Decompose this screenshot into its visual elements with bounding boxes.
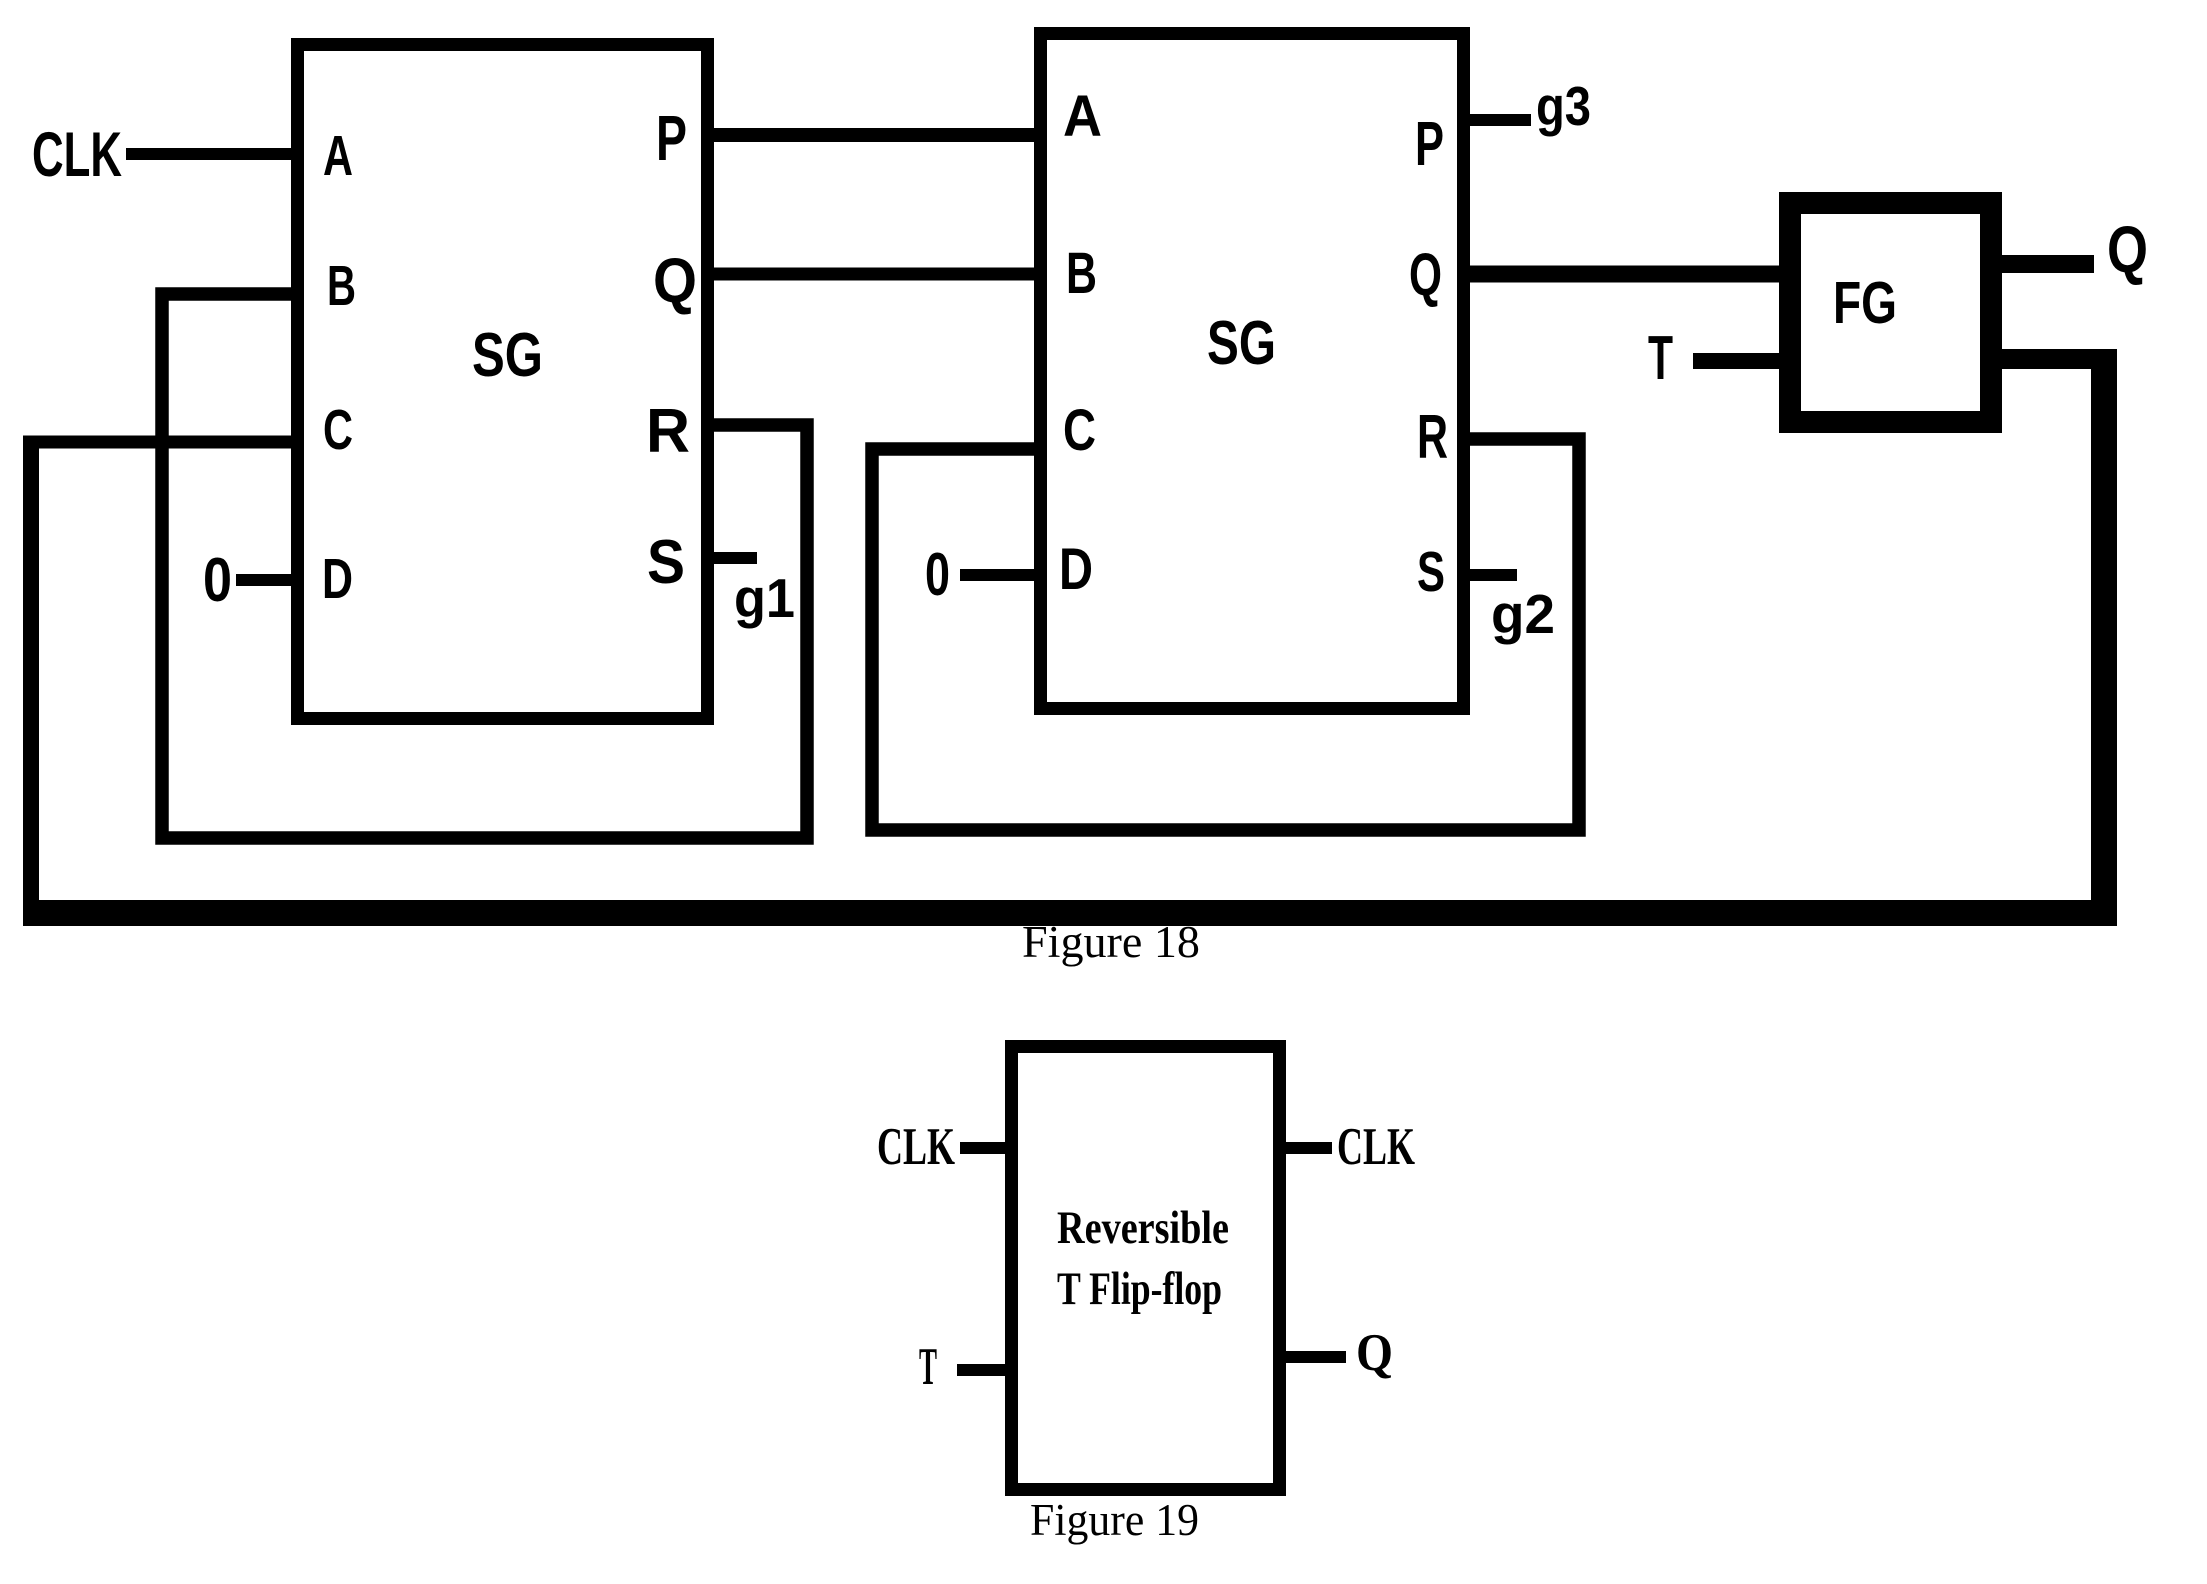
svg-text:A: A	[1063, 84, 1102, 149]
svg-text:Figure 18: Figure 18	[1022, 917, 1200, 967]
svg-text:0: 0	[925, 541, 950, 608]
wire Q output (Figure 19)	[1280, 1351, 1346, 1363]
reversible T flip-flop box (Figure 19)	[1012, 1047, 1280, 1490]
svg-text:B: B	[1066, 241, 1097, 306]
svg-text:D: D	[1059, 537, 1093, 602]
wire FG Q output	[2000, 255, 2094, 273]
svg-text:g3: g3	[1536, 75, 1591, 137]
wire CLK to A (U1)	[126, 148, 298, 160]
svg-text:g1: g1	[734, 567, 795, 629]
svg-text:T: T	[919, 1338, 937, 1396]
svg-text:C: C	[1063, 398, 1096, 463]
gate FG box	[1790, 203, 1991, 422]
svg-text:C: C	[323, 398, 353, 462]
wire Q (U2) to FG input	[1463, 266, 1791, 283]
wire 0 to D (U2)	[960, 569, 1041, 581]
wire R (U1) feedback loop to B (U1)	[162, 294, 807, 838]
wire S (U1) stub	[707, 552, 757, 564]
wire Q (U1) to B (U2)	[707, 268, 1041, 281]
svg-text:FG: FG	[1833, 270, 1897, 336]
svg-text:SG: SG	[472, 321, 543, 390]
svg-text:T: T	[1648, 324, 1673, 393]
wire CLK left (Figure 19)	[960, 1142, 1012, 1154]
svg-text:CLK: CLK	[32, 120, 122, 190]
wire into C (U1)	[23, 436, 298, 449]
wire T to FG	[1693, 353, 1790, 369]
SG gate U2 box	[1041, 34, 1464, 709]
svg-text:Q: Q	[653, 246, 697, 316]
wire R (U2) feedback loop to C (U2)	[872, 439, 1579, 830]
svg-text:P: P	[1415, 110, 1444, 179]
wire feedback left vertical	[23, 442, 39, 925]
svg-text:S: S	[1417, 540, 1445, 604]
svg-text:Figure 19: Figure 19	[1030, 1495, 1199, 1545]
wire FG lower output feedback to C (U1): right stub	[2000, 349, 2117, 369]
svg-text:SG: SG	[1207, 309, 1276, 378]
wire feedback bottom horizontal	[23, 900, 2117, 926]
SG gate U1 box	[298, 45, 708, 719]
wire S (U2) stub	[1463, 569, 1517, 581]
svg-text:R: R	[646, 397, 690, 466]
svg-text:P: P	[656, 102, 687, 174]
svg-text:Q: Q	[2107, 212, 2148, 286]
wire P (U1) to A (U2)	[707, 128, 1041, 142]
svg-text:g2: g2	[1491, 583, 1555, 645]
svg-text:D: D	[322, 547, 353, 611]
wire CLK right (Figure 19)	[1280, 1142, 1332, 1154]
wire 0 to D (U1)	[236, 574, 298, 586]
wire T input (Figure 19)	[957, 1364, 1012, 1376]
svg-text:B: B	[327, 254, 356, 318]
svg-text:0: 0	[203, 546, 232, 615]
svg-text:CLK: CLK	[877, 1118, 955, 1176]
svg-text:Reversible: Reversible	[1057, 1202, 1229, 1254]
wire feedback right vertical	[2091, 349, 2117, 913]
svg-text:S: S	[647, 528, 685, 597]
svg-text:Q: Q	[1356, 1324, 1393, 1382]
svg-text:T Flip-flop: T Flip-flop	[1057, 1263, 1222, 1315]
svg-text:R: R	[1417, 403, 1448, 472]
svg-text:Q: Q	[1409, 241, 1442, 308]
wire P (U2) stub to g3	[1463, 114, 1531, 126]
svg-text:CLK: CLK	[1337, 1118, 1415, 1176]
svg-text:A: A	[323, 124, 353, 188]
